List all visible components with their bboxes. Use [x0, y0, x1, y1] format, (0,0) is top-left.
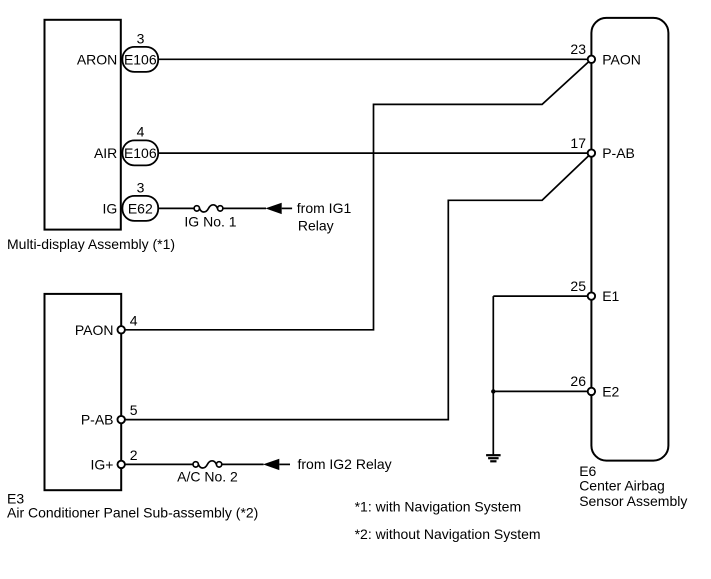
svg-text:ARON: ARON — [77, 51, 117, 67]
svg-text:17: 17 — [570, 135, 586, 151]
svg-text:from IG2 Relay: from IG2 Relay — [298, 456, 392, 472]
svg-text:PAON: PAON — [602, 51, 641, 67]
svg-text:Air Conditioner Panel Sub-asse: Air Conditioner Panel Sub-assembly (*2) — [7, 505, 258, 521]
svg-text:*1: with Navigation System: *1: with Navigation System — [355, 499, 522, 515]
svg-text:A/C No. 2: A/C No. 2 — [177, 469, 238, 485]
svg-text:AIR: AIR — [94, 145, 117, 161]
svg-text:P-AB: P-AB — [81, 412, 114, 428]
svg-text:5: 5 — [130, 402, 138, 418]
svg-text:Center Airbag: Center Airbag — [579, 478, 665, 494]
svg-text:2: 2 — [130, 447, 138, 463]
svg-text:E6: E6 — [579, 463, 596, 479]
svg-text:26: 26 — [570, 373, 586, 389]
svg-text:Relay: Relay — [298, 217, 334, 233]
svg-text:3: 3 — [137, 179, 145, 195]
svg-text:Sensor Assembly: Sensor Assembly — [579, 493, 687, 509]
svg-text:PAON: PAON — [75, 322, 114, 338]
svg-text:E2: E2 — [602, 384, 619, 400]
svg-text:3: 3 — [137, 30, 145, 46]
svg-text:IG No. 1: IG No. 1 — [184, 214, 236, 230]
svg-text:4: 4 — [137, 123, 145, 139]
svg-text:4: 4 — [130, 312, 138, 328]
svg-text:IG+: IG+ — [91, 456, 114, 472]
svg-text:from IG1: from IG1 — [297, 200, 352, 216]
svg-text:E1: E1 — [602, 288, 619, 304]
svg-text:Multi-display Assembly (*1): Multi-display Assembly (*1) — [7, 236, 175, 252]
svg-text:IG: IG — [103, 201, 118, 217]
svg-text:P-AB: P-AB — [602, 145, 635, 161]
svg-text:25: 25 — [570, 278, 586, 294]
svg-text:*2: without Navigation System: *2: without Navigation System — [355, 526, 541, 542]
svg-text:E62: E62 — [128, 200, 153, 216]
svg-text:E106: E106 — [124, 145, 157, 161]
svg-text:E106: E106 — [124, 51, 157, 67]
svg-text:23: 23 — [570, 41, 586, 57]
